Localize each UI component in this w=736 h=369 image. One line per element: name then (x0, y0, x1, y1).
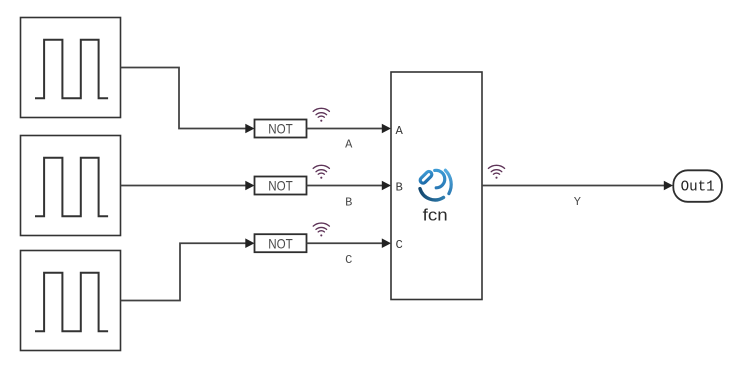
svg-text:Out1: Out1 (681, 180, 715, 196)
wireless logging badge 1 (313, 108, 329, 121)
wire PG2 to NOT2 (121, 181, 255, 191)
svg-text:NOT: NOT (268, 178, 293, 194)
svg-text:NOT: NOT (268, 235, 293, 251)
fcn icon outer arc (445, 170, 451, 193)
svg-text:B: B (396, 181, 403, 195)
fcn icon bottom arc (420, 189, 444, 200)
wireless logging badge 2 (313, 165, 329, 178)
pulse generator PG3 (21, 251, 121, 351)
svg-text:C: C (396, 238, 403, 252)
svg-text:Y: Y (574, 195, 581, 209)
NOT gate U2 (255, 177, 307, 195)
wire NOT3 to port C (307, 238, 392, 267)
wire fcn to Out1, signal Y (482, 181, 673, 209)
svg-text:NOT: NOT (268, 121, 293, 137)
svg-text:B: B (345, 195, 352, 209)
svg-text:fcn: fcn (423, 206, 448, 225)
wire PG3 to NOT3 (121, 238, 255, 300)
svg-text:C: C (345, 253, 352, 267)
fcn icon inner hook (435, 170, 445, 187)
wire PG1 to NOT1 (121, 68, 255, 134)
wire NOT2 to port B (307, 181, 392, 210)
pulse generator PG1 (21, 18, 121, 118)
outport Out1 (673, 170, 722, 202)
svg-text:A: A (396, 124, 404, 138)
NOT gate U3 (255, 234, 307, 252)
NOT gate U1 (255, 120, 307, 138)
wire NOT1 to port A (307, 124, 392, 152)
MATLAB Function block U4 fcn (391, 72, 482, 300)
wireless logging badge 3 (313, 223, 329, 236)
pulse generator PG2 (21, 136, 121, 236)
svg-text:A: A (345, 138, 353, 152)
fcn icon ring stroke (419, 170, 451, 200)
wireless logging badge 4 (488, 165, 504, 178)
